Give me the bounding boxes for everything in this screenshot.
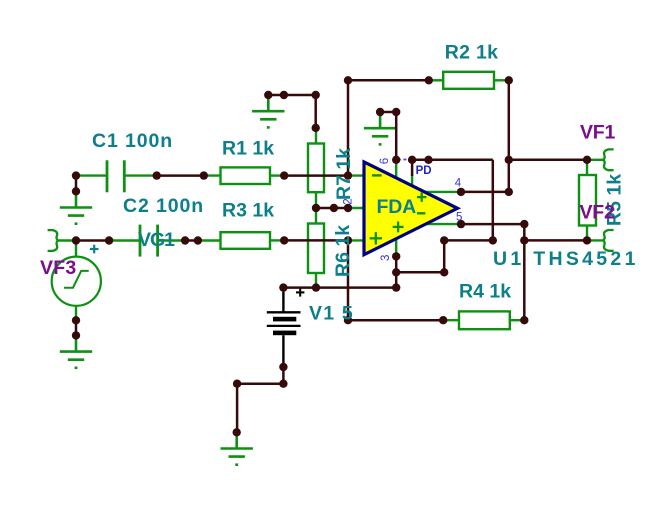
svg-text:4: 4 (455, 177, 462, 189)
wire R3 right lead (270, 239, 285, 241)
resistor R6 (vertical, 1k) (308, 224, 324, 274)
svg-text:C1 100n: C1 100n (92, 130, 173, 152)
wire R7 bottom lead (315, 192, 317, 208)
U1 output plus sign (417, 192, 426, 201)
wire VOCM row (316, 207, 348, 210)
wire IN+ down to R4 (347, 240, 350, 320)
wire ground to R7 top (268, 94, 315, 97)
resistor R1 1k (221, 167, 271, 184)
wire VF1 row (509, 159, 587, 162)
svg-text:2: 2 (342, 198, 354, 204)
svg-text:3: 3 (380, 255, 392, 261)
VG1 waveform symbol (64, 271, 89, 288)
wire R7 top lead (315, 128, 317, 144)
wire pin6 column (395, 112, 398, 160)
resistor R3 1k (221, 232, 271, 249)
U1 plus sign (IN+) (370, 232, 382, 244)
wire PD lead (dark part) (411, 160, 414, 176)
svg-text:PD: PD (416, 165, 432, 177)
wire VOCM lead to U1 (348, 207, 365, 209)
wire VF3 to C2 (76, 239, 109, 242)
wire VF2 lead (587, 239, 603, 241)
wire R3 left lead (198, 239, 221, 241)
wire VG1 bottom lead (75, 306, 77, 321)
svg-text:6: 6 (379, 158, 391, 164)
ground (under VG1) (60, 335, 92, 367)
wire C1 to R1 (157, 174, 204, 177)
battery V1 (5V) (267, 288, 301, 367)
wire R2 left to corner (348, 79, 429, 82)
wire C1 right lead (126, 174, 157, 176)
wire V1- down (282, 367, 285, 384)
wire VF3 lead (58, 239, 76, 241)
svg-text:VF1: VF1 (580, 121, 616, 143)
svg-text:V1 5: V1 5 (309, 303, 354, 325)
wire pin5 lead (424, 223, 461, 225)
wire pin4 row (461, 191, 509, 194)
wire IN- lead to U1 (348, 174, 365, 176)
ground (under V1) (221, 432, 253, 464)
junction dots (all wire nodes) (72, 76, 591, 436)
wire V1- left (237, 382, 283, 385)
svg-text:VG1: VG1 (138, 229, 175, 251)
ground (top left, R7 top) (252, 95, 284, 127)
wire R4 row left (348, 319, 443, 322)
wire C1 node down to ground (75, 176, 78, 192)
wire R5 top lead (586, 160, 588, 176)
wire C1 left lead (76, 174, 106, 176)
svg-text:FDA: FDA (377, 196, 417, 218)
terminal VF2 (603, 230, 613, 251)
U1 minus sign (IN-) (372, 174, 382, 176)
svg-text:R1 1k: R1 1k (222, 137, 274, 159)
VG1 plus mark (90, 245, 99, 254)
resistor R2 1k (443, 72, 494, 89)
wire C2 left lead (109, 239, 139, 241)
terminal VF3 (48, 230, 58, 251)
terminal VF1 (603, 149, 613, 170)
wire R4 left lead (443, 319, 459, 321)
wire R5 bottom lead (586, 225, 588, 240)
resistor R5 (vertical, 1k) (579, 175, 596, 226)
wire PD node to corner (412, 159, 493, 162)
wire VG1 to ground link (75, 320, 78, 335)
source VG1 (circle) (52, 257, 101, 306)
wire corner down right of U1 (492, 160, 495, 241)
wire R1 to IN- (crosses R7) (284, 174, 348, 177)
wire C2 to R3 (185, 239, 198, 242)
svg-text:R6 1k: R6 1k (332, 225, 354, 277)
svg-text:VF2: VF2 (580, 202, 616, 224)
U1 output minus sign (417, 212, 425, 214)
svg-text:5: 5 (456, 211, 462, 223)
wire pin6 lead (395, 160, 397, 178)
resistor R4 1k (459, 311, 510, 329)
wire R2 left lead (429, 79, 444, 81)
wire V1- ground column (236, 384, 239, 433)
wire R6 top lead (315, 208, 317, 224)
wire pin3 riser (443, 240, 446, 272)
wire PD dashed link (398, 159, 411, 161)
wire pin5 row (461, 223, 524, 226)
wire corner down to IN- node (347, 80, 350, 175)
resistor R7 (vertical, 1k) (308, 144, 324, 193)
svg-text:U1 THS4521: U1 THS4521 (493, 248, 639, 270)
capacitor C1 100n (107, 160, 124, 192)
wire pin3 horizontal (396, 271, 444, 274)
wire IN+ lead to U1 (348, 239, 365, 241)
ground (above U1) (364, 112, 396, 144)
svg-text:R4 1k: R4 1k (459, 280, 511, 302)
wire pin5 column (523, 224, 526, 320)
wire ground to pin6 column (380, 111, 396, 114)
wire pin3 riser to corner (444, 239, 493, 242)
wire R2 right lead (494, 79, 509, 81)
wire VF1 lead (587, 159, 603, 161)
U1 middle plus sign (393, 222, 404, 233)
svg-text:R2 1k: R2 1k (445, 41, 499, 63)
wire PD lead (green part) (411, 175, 413, 188)
wire R3 to IN+ (crosses R6) (284, 239, 348, 242)
wire C2 right lead (159, 239, 185, 241)
wire pin3 lead (395, 240, 397, 257)
capacitor C2 100n (140, 225, 158, 257)
wire R1 right lead (270, 174, 285, 176)
wire R6 bottom lead (315, 273, 317, 288)
wire pin4 lead (424, 191, 461, 193)
svg-text:VF3: VF3 (40, 257, 76, 279)
battery V1 plus mark (296, 288, 304, 296)
wire VG1 top lead (75, 241, 77, 257)
wire pin3 column (395, 256, 398, 287)
wire R4 right lead (510, 319, 525, 321)
svg-text:R7 1k: R7 1k (333, 148, 355, 200)
ground (under C1) (60, 191, 92, 223)
wire pin5 to VF2 row (524, 239, 587, 242)
wire V1+ row (283, 286, 396, 289)
op-amp U1 (FDA triangle) (364, 162, 458, 255)
wire R1 left lead (204, 174, 221, 176)
svg-text:C2 100n: C2 100n (123, 195, 204, 217)
wire R2 right column (508, 80, 511, 192)
svg-text:R3 1k: R3 1k (222, 200, 274, 222)
wire R7 top column (314, 95, 317, 128)
